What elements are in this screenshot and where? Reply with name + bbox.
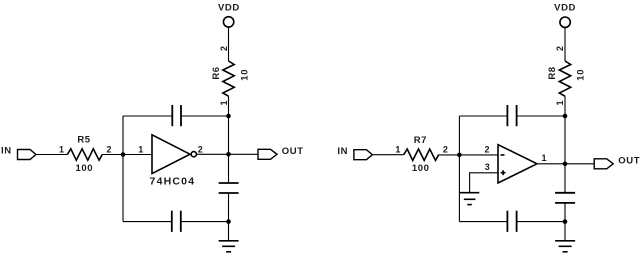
wire node A2 vertical: [458, 116, 460, 222]
wire output column upper: [228, 116, 230, 183]
svg-text:1: 1: [555, 100, 565, 105]
svg-text:2: 2: [443, 145, 448, 155]
capacitor C6 output: [555, 193, 575, 203]
svg-text:IN: IN: [1, 146, 12, 157]
svg-text:1: 1: [219, 100, 229, 105]
svg-text:2: 2: [219, 46, 229, 51]
op-amp U2: [498, 145, 537, 183]
svg-text:1: 1: [59, 144, 64, 154]
ground left: [219, 222, 239, 252]
svg-text:R6: R6: [211, 66, 222, 79]
resistor R5: [67, 149, 102, 160]
port OUT right: [594, 156, 640, 169]
port IN right: [337, 146, 372, 160]
resistor R8: [559, 61, 570, 96]
wire top feedback right right-circuit: [517, 115, 565, 117]
node A junction: [121, 152, 126, 157]
svg-text:74HC04: 74HC04: [150, 175, 196, 187]
svg-text:OUT: OUT: [282, 146, 304, 157]
power VDD left: [218, 2, 240, 27]
capacitor C4 top: [507, 105, 516, 126]
node B2 junction: [563, 162, 568, 167]
wire output column upper right-circuit: [564, 116, 566, 193]
wire IN to R5: [36, 154, 67, 156]
wire IN to R7: [372, 154, 403, 156]
wire inverter output to OUT: [197, 153, 258, 155]
capacitor C3 output: [219, 183, 239, 193]
wire bottom feedback left right-circuit: [459, 221, 507, 223]
capacitor C5 bottom: [507, 211, 516, 232]
junction top right right-circuit: [563, 114, 568, 119]
wire top feedback right: [181, 115, 229, 117]
inverter U1: [152, 135, 196, 174]
svg-text:IN: IN: [337, 146, 348, 157]
svg-text:R5: R5: [77, 135, 90, 146]
svg-text:R8: R8: [547, 66, 558, 79]
wire R7 to op-amp inverting input: [439, 154, 498, 156]
junction bottom right: [226, 219, 231, 224]
wire bottom feedback right: [181, 221, 229, 223]
svg-text:10: 10: [576, 69, 587, 81]
resistor R7: [404, 149, 439, 160]
ground right: [555, 222, 575, 252]
node B junction: [226, 152, 231, 157]
wire top feedback left right-circuit: [459, 115, 507, 117]
power VDD right: [554, 3, 576, 28]
svg-text:100: 100: [75, 163, 93, 174]
capacitor C1 top: [172, 105, 181, 126]
svg-text:R7: R7: [414, 135, 427, 146]
svg-text:1: 1: [541, 153, 546, 163]
svg-text:OUT: OUT: [618, 156, 640, 167]
node A2 junction: [457, 153, 462, 158]
junction bottom right right-circuit: [563, 219, 568, 224]
port OUT: [258, 146, 304, 159]
junction top right: [226, 114, 231, 119]
svg-text:1: 1: [395, 145, 400, 155]
svg-text:1: 1: [138, 145, 143, 155]
ground at plus input: [460, 193, 479, 205]
wire node A vertical: [122, 116, 124, 222]
wire bottom feedback left: [123, 221, 172, 223]
wire VDD to R8: [564, 27, 566, 61]
svg-text:2: 2: [198, 144, 203, 154]
svg-text:10: 10: [239, 69, 250, 81]
resistor R6: [223, 61, 234, 96]
wire op-amp output to OUT: [537, 163, 594, 165]
svg-text:3: 3: [485, 162, 490, 172]
svg-text:2: 2: [484, 144, 489, 154]
svg-text:100: 100: [412, 163, 430, 174]
wire output column lower: [228, 193, 230, 222]
capacitor C2 bottom: [172, 211, 181, 232]
svg-text:VDD: VDD: [218, 2, 240, 13]
port IN: [1, 146, 36, 160]
wire VDD to R6: [228, 27, 230, 61]
svg-text:2: 2: [555, 46, 565, 51]
svg-text:VDD: VDD: [554, 3, 576, 14]
wire top feedback left: [123, 115, 172, 117]
wire op-amp plus input: [470, 173, 498, 193]
wire R8 to node: [564, 96, 566, 116]
svg-text:2: 2: [106, 144, 111, 154]
wire R6 to node: [228, 96, 230, 116]
wire bottom feedback right right-circuit: [517, 221, 565, 223]
wire R5 to inverter input: [102, 154, 152, 156]
wire output column lower right-circuit: [564, 203, 566, 222]
